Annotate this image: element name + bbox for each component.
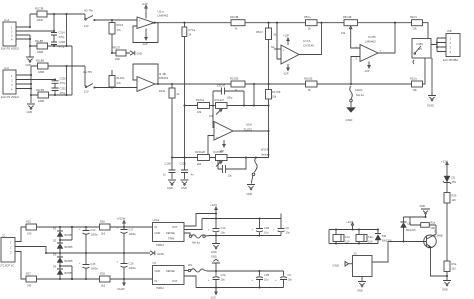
svg-text:C5: C5 [286,226,290,230]
power -12V (U5A bottom) [219,140,226,153]
svg-text:1000u: 1000u [129,232,137,236]
wire U2A out top link [184,214,216,227]
svg-text:100R: 100R [37,18,43,22]
svg-text:Varicap: Varicap [261,153,270,157]
svg-text:J1-b: J1-b [4,66,10,70]
svg-text:LM6462: LM6462 [158,14,169,18]
svg-text:C10A: C10A [165,162,172,166]
wire U5A non-inverting input [207,136,214,159]
capacitor C3 100p [213,84,245,128]
svg-text:IN: IN [155,279,158,283]
power -12V (U1:A bottom) [142,29,148,46]
svg-text:C3C47: C3C47 [217,84,226,88]
svg-text:240: 240 [27,284,32,288]
svg-text:GND: GND [181,186,187,190]
resistor R8B (channel B series) [31,59,85,75]
svg-text:TRIM: TRIM [168,237,174,241]
svg-text:12V: 12V [84,90,89,94]
wire rail -12 B [196,286,284,288]
relay K1 [412,39,431,65]
svg-text:R1L8B: R1L8B [35,39,43,43]
svg-text:10u: 10u [264,231,269,235]
svg-text:+12V: +12V [210,203,217,207]
svg-text:R27: R27 [26,272,31,276]
power +12V (U17A top) [283,34,289,46]
svg-text:-: - [139,80,140,83]
svg-text:OUT: OUT [172,279,178,283]
zener D5 15V [443,169,456,193]
svg-text:240: 240 [27,232,32,236]
svg-text:+12P: +12P [283,34,289,38]
wire U17A non-inverting stub [271,45,281,49]
svg-text:78M12: 78M12 [156,243,164,247]
svg-text:180R: 180R [38,70,44,74]
capacitor C5 10u [273,219,290,236]
svg-text:12V: 12V [345,240,350,244]
wire U17B output [378,23,395,53]
potentiometer R20A 20k [209,98,227,118]
svg-text:10k: 10k [413,88,418,92]
svg-text:SENSE: SENSE [166,231,175,235]
svg-text:BZX85: BZX85 [65,245,73,249]
power -12V flag (dist) [210,288,218,299]
svg-text:R17CB: R17CB [272,90,281,94]
svg-text:47k: 47k [117,81,122,85]
wire U17A inverting input [277,23,281,59]
svg-text:GND: GND [420,204,426,208]
resistor R29 [444,193,457,262]
svg-text:K2A: K2A [368,235,373,239]
svg-text:R1Ca: R1Ca [410,77,417,81]
wire J2 pin2 [15,247,47,255]
resistor R15B [31,88,72,103]
svg-text:C320: C320 [60,77,67,81]
testpoint W2C Net da [350,86,364,107]
wire rail +12 A [202,214,281,220]
ground (R30) [442,281,451,292]
svg-text:U5A: U5A [246,123,252,127]
jumper W2 Net da [184,233,210,245]
svg-text:GND: GND [427,104,435,108]
svg-text:-12P: -12P [364,69,370,73]
svg-text:JC: JC [2,234,5,238]
power +V12V flag [117,217,126,228]
svg-text:R2Ca47: R2Ca47 [215,98,225,102]
svg-text:10u: 10u [228,174,233,178]
svg-text:BC546B: BC546B [433,234,443,238]
svg-text:K1A: K1A [345,235,350,239]
svg-text:47k: 47k [117,28,122,32]
svg-text:RL15A: RL15A [117,76,125,80]
wire node link B [66,66,68,95]
svg-text:C1B: C1B [264,226,269,230]
capacitor C15 1000u [79,253,98,279]
svg-text:C15: C15 [91,262,96,266]
op-amp U1:A LM6462 [137,10,169,29]
svg-text:10k: 10k [341,31,346,35]
svg-text:ELK 4B MBC: ELK 4B MBC [443,58,458,62]
IC A1 [353,252,373,277]
resistor R10 with GND port [111,46,142,62]
svg-text:R28: R28 [100,272,105,276]
svg-text:R8C57: R8C57 [112,46,121,50]
resistor R16B 5k [304,77,317,93]
svg-text:GND: GND [27,110,33,114]
svg-text:C17A: C17A [303,39,311,43]
wire relay rail top [329,228,379,230]
svg-text:GND: GND [346,118,354,122]
svg-text:4G-T3b: 4G-T3b [84,9,93,13]
svg-text:R1L5B: R1L5B [36,88,44,92]
svg-text:W3: W3 [188,263,192,267]
connector J1-B [1,66,19,99]
capacitor C19 1000u [117,253,137,279]
svg-text:BAS316: BAS316 [406,228,416,232]
resistor R4 2k [159,84,180,159]
svg-text:C1A: C1A [221,226,226,230]
svg-text:R6C3: R6C3 [117,23,124,27]
resistor R30 [444,261,457,280]
svg-text:D1: D1 [53,227,57,231]
wire U17B pin5 [351,57,360,85]
wire J1-A pin3/4 to ground bus [16,35,31,57]
wire J2 pin1 [15,227,26,242]
wire mid bus (U1:B out) [155,83,412,85]
wire relay ground branch [431,58,433,95]
svg-text:C6: C6 [288,273,292,277]
ground (W1F) [247,185,256,197]
svg-text:ELK PS VIDEO: ELK PS VIDEO [1,95,19,99]
resistor R18A 10k [196,98,210,114]
op-amp U5A TL072 [214,122,252,141]
capacitor C322 [52,87,67,96]
svg-text:-12P: -12P [283,72,289,76]
wire top bus (U1:A out) [153,22,411,24]
ground stack (dist) [211,236,220,272]
svg-text:U2Ca: U2Ca [153,218,160,222]
power -12V (U17A bottom) [283,64,289,76]
op-amp U17B LM6462 [356,35,382,62]
wire GND row [404,216,426,218]
svg-text:DM: DM [382,234,386,238]
switch S2 12V [83,66,96,94]
resistor R5A [304,15,317,31]
wire D3-D4 node link [59,265,73,280]
power +12V flag (transistor block) [441,160,448,170]
svg-text:R14b: R14b [159,89,166,93]
svg-text:R13CB: R13CB [230,77,239,81]
diode D4 [53,263,73,280]
diode D2 [53,237,73,254]
potentiometer R17BB 20k [214,150,228,167]
resistor R15AB 20k [195,150,210,166]
svg-text:10k: 10k [197,110,202,114]
svg-text:D3: D3 [53,253,57,257]
svg-text:GND: GND [211,255,217,259]
svg-text:GND: GND [167,186,173,190]
svg-text:R1C3B: R1C3B [35,7,44,11]
resistor R26 [100,220,111,236]
wire U17A feedback [299,23,322,55]
wire column x184.5 [183,37,185,171]
diode D7 BAS316 [375,230,392,244]
ground (W2C) [346,108,356,123]
capacitor C21A [51,14,65,42]
svg-text:1000u: 1000u [91,233,99,237]
svg-text:R29: R29 [452,194,457,198]
svg-text:GND: GND [442,288,448,292]
svg-text:12V: 12V [418,47,423,51]
svg-text:R16CB: R16CB [304,77,313,81]
power -12V (U17B bottom) [364,62,370,74]
svg-text:R2C3B: R2C3B [230,15,239,19]
resistor R1A 10k [410,58,425,92]
wire to U1:B input [95,86,138,88]
regulator U2A 78M12 [153,218,185,247]
resistor R13B 1k [230,77,245,93]
svg-text:U3: U3 [153,261,157,265]
svg-text:C13: C13 [91,228,96,232]
diode D3 [53,253,73,264]
wire to U1:A input [95,19,138,21]
svg-text:20k: 20k [209,114,214,118]
svg-text:25R: 25R [115,57,120,61]
svg-text:12V: 12V [368,240,373,244]
svg-text:R17CB7: R17CB7 [214,150,224,154]
svg-text:-: - [283,60,284,63]
wires J1-B pins [16,66,56,103]
svg-text:470p: 470p [59,35,65,39]
svg-text:470p: 470p [59,45,65,49]
op-amp U17A CA3140 [281,39,314,64]
wire U1:B feedback [133,64,159,85]
svg-text:R5Ca: R5Ca [304,15,311,19]
resistor R2 [230,15,245,31]
svg-text:GND: GND [333,264,341,268]
svg-text:GND: GND [26,63,32,67]
resistor R6 5k [256,23,277,84]
svg-text:JT1 8CP VC: JT1 8CP VC [0,264,14,268]
svg-text:C2A: C2A [221,273,226,277]
resistor R3 2k [182,23,196,37]
svg-text:10u: 10u [288,278,293,282]
wire row y105.5 [185,105,269,107]
transistor T1 BC546B [388,229,447,276]
power -V12V flag [117,279,126,291]
capacitor C17 1000u [117,227,137,254]
svg-text:GND: GND [247,192,253,196]
resistor R25 [26,220,37,236]
capacitor C2B 10u [252,271,270,288]
svg-text:R4C3: R4C3 [410,15,417,19]
wire U5A output [233,130,270,132]
svg-text:15V: 15V [452,180,457,184]
svg-text:D4: D4 [53,265,57,269]
jumper W3 [184,263,207,272]
svg-text:12V: 12V [84,24,89,28]
svg-text:D5: D5 [452,176,456,180]
svg-text:C21A: C21A [59,31,66,35]
resistor R28 [100,272,111,288]
resistor R1 [30,7,85,28]
ground (C10B) [181,180,189,190]
svg-text:GND: GND [211,250,217,254]
wire column x254 [253,84,255,107]
svg-text:C10B: C10B [180,162,187,166]
ground (C10A) [167,180,176,190]
svg-text:R26: R26 [100,220,105,224]
svg-text:+V12W: +V12W [117,217,126,221]
svg-text:GND: GND [357,289,363,293]
svg-text:J1B: J1B [447,29,452,33]
svg-text:A1: A1 [354,252,358,256]
svg-text:R6C3: R6C3 [256,30,263,34]
svg-text:K1BC: K1BC [417,42,424,46]
svg-text:C17: C17 [129,228,134,232]
svg-text:4G-T5V: 4G-T5V [83,70,92,74]
resistor R15A 47k [109,70,125,87]
svg-text:180R: 180R [37,50,43,54]
capacitor C1A 10u [208,214,226,236]
svg-text:20k: 20k [272,95,277,99]
svg-text:-: - [216,127,217,130]
wire T1 base to A1 [372,242,388,263]
wire D1-D2 node link [59,226,73,241]
wire U2A out rail link [184,219,202,230]
svg-text:LM6462: LM6462 [365,40,376,44]
resistor R2A [410,217,436,234]
svg-text:2k2: 2k2 [101,232,106,236]
ground GND (T1 block) [420,204,431,218]
ground (relay) [427,96,436,108]
connector J1-A [1,18,19,51]
svg-text:1k5: 1k5 [452,198,457,202]
wire relay rail bottom [329,230,378,245]
svg-text:R1L8B: R1L8B [36,59,44,63]
svg-text:R15CaB: R15CaB [195,150,205,154]
capacitor C10A [163,158,176,180]
svg-text:CW2C: CW2C [355,88,363,92]
svg-text:-V12W: -V12W [117,287,125,291]
svg-text:C322: C322 [60,87,67,91]
testpoint W1F Varicap [251,148,270,184]
svg-text:Na: Na [271,45,275,49]
wire rail +V unreg [37,226,153,228]
svg-text:CA3140: CA3140 [303,44,314,48]
svg-text:GND: GND [137,52,143,56]
wire rail -12 A [207,270,284,272]
svg-text:C17B: C17B [368,35,376,39]
svg-text:10u: 10u [221,278,226,282]
svg-text:C21B: C21B [59,40,66,44]
svg-text:R2a: R2a [430,221,435,225]
capacitor C11 10u [218,158,246,178]
svg-text:1000u: 1000u [129,266,137,270]
port GND (A1 left) [333,262,353,268]
wire U3 to rail -12B [184,276,196,288]
capacitor C21B [51,40,65,49]
svg-text:Net da: Net da [192,241,200,245]
regulator U3 79M12 [153,261,185,290]
diode D1 [53,227,73,238]
svg-text:20k: 20k [197,162,202,166]
resistor R8B [30,39,72,54]
wire rail +12 B [210,234,281,236]
ground GND (below J1-B) [27,104,36,114]
svg-text:-12V: -12V [210,296,216,299]
resistor R17B 20k [266,84,281,107]
resistor R27 [26,272,37,288]
power +12V flag (relay block) [346,220,354,230]
svg-text:W1CF: W1CF [261,148,269,152]
wire node link A [67,14,73,95]
ground (A1 bottom) [357,277,366,293]
svg-text:GND: GND [157,252,165,256]
switch S1 12V [84,9,96,29]
svg-text:R5CaB: R5CaB [343,15,352,19]
resistor R4B 10k [410,15,428,38]
capacitor C10B [180,162,194,180]
wire rail -V unreg [37,278,153,280]
svg-text:GND: GND [155,231,161,235]
capacitor C320 [52,77,67,89]
svg-text:OUT: OUT [172,225,178,229]
capacitor C1B 10u [252,219,270,236]
svg-text:-: - [139,26,140,29]
svg-text:BZX85: BZX85 [65,259,73,263]
ground GND (below J1-A) [26,57,35,67]
svg-text:SENSE: SENSE [166,269,175,273]
relay coil K1A [333,230,350,244]
svg-text:180R: 180R [38,99,44,103]
svg-text:C19: C19 [129,262,134,266]
svg-text:GND: GND [155,269,161,273]
power +12V flag (dist) [210,203,217,215]
capacitor C2A 10u [208,271,226,288]
relay coil K2A [356,230,373,244]
svg-text:2k2: 2k2 [101,284,106,288]
svg-text:J1-A: J1-A [4,18,10,22]
connector J3 [443,29,460,62]
op-amp U1:B LM6462 [137,72,169,92]
diode D6 BAS316 [401,217,417,243]
svg-text:R18Ca: R18Ca [196,98,205,102]
svg-text:Net da: Net da [356,93,364,97]
wires relay to J3 [431,38,446,52]
svg-text:C2B: C2B [264,273,269,277]
svg-text:1k2: 1k2 [452,267,457,271]
svg-text:470p: 470p [60,81,66,85]
svg-text:79M12: 79M12 [156,286,164,290]
svg-text:R7Ca: R7Ca [189,28,196,32]
svg-text:ELK PS VIDEO: ELK PS VIDEO [1,47,19,51]
svg-text:IN: IN [155,225,158,229]
wire J2 pin3 [15,252,26,280]
resistor R6A 47k [109,20,124,53]
wire column x268 [268,106,270,158]
svg-text:LM6462: LM6462 [158,76,169,80]
port GND (mid rail) [150,251,165,256]
svg-text:10u: 10u [264,278,269,282]
svg-text:+12P: +12P [142,2,148,6]
wire row y157.5 [172,131,269,159]
power +12V (U1:A top) [142,2,148,19]
connector J2 [0,234,15,268]
svg-text:10u: 10u [221,231,226,235]
svg-text:R3a: R3a [452,262,457,266]
svg-text:100p: 100p [227,96,233,100]
svg-text:10u: 10u [286,231,291,235]
